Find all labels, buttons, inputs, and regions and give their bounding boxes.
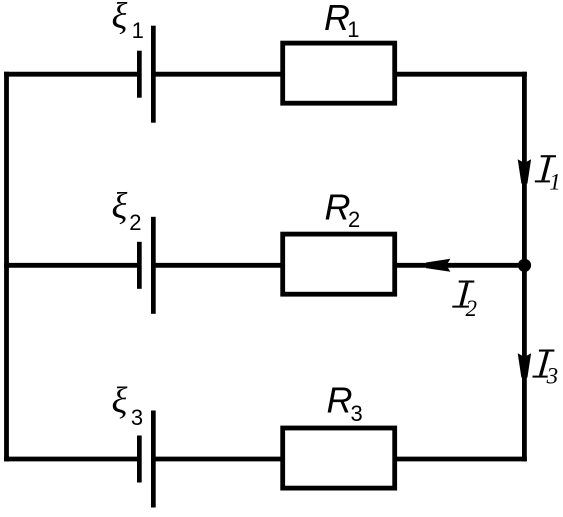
svg-text:3: 3 — [351, 401, 363, 426]
svg-text:1: 1 — [132, 18, 144, 43]
svg-text:R: R — [327, 380, 353, 421]
wire left vertical bus — [4, 72, 9, 462]
svg-text:3: 3 — [546, 364, 559, 389]
wire middle row: resistor R2 to right bus node — [395, 263, 527, 268]
battery E3 long plate — [151, 411, 156, 508]
wire right vertical bus — [522, 72, 527, 462]
wire middle row: left bus to battery 2 — [4, 263, 139, 268]
resistor R1 body — [283, 43, 395, 103]
current arrow I1 head (down) — [518, 159, 531, 183]
svg-text:ξ: ξ — [112, 0, 128, 37]
battery E2 long plate — [151, 217, 156, 314]
label I3 — [533, 350, 555, 378]
label I1 — [535, 155, 556, 182]
wire middle row: battery 2 to resistor R2 — [153, 263, 283, 268]
battery E2 short plate — [137, 242, 142, 289]
svg-text:R: R — [325, 186, 351, 227]
current arrow I3 head (down) — [518, 353, 531, 377]
battery E1 long plate — [151, 26, 156, 123]
wire top row: resistor R1 to right bus — [395, 72, 527, 77]
svg-text:2: 2 — [348, 207, 360, 232]
svg-text:2: 2 — [129, 210, 141, 235]
wire top row: battery 1 to resistor R1 — [153, 72, 283, 77]
wire bottom row: left bus to battery 3 — [4, 457, 139, 462]
current arrow I2 head (left) — [426, 259, 450, 272]
resistor R2 body — [283, 234, 395, 294]
wire top row: left bus to battery 1 — [4, 72, 139, 77]
battery E3 short plate — [137, 436, 142, 483]
wire bottom row: battery 3 to resistor R3 — [153, 457, 283, 462]
svg-text:ξ: ξ — [112, 380, 128, 421]
svg-text:1: 1 — [549, 170, 561, 195]
battery E1 short plate — [137, 51, 142, 98]
svg-text:R: R — [324, 0, 350, 38]
label I2 — [452, 281, 474, 308]
resistor R3 body — [283, 428, 395, 488]
svg-text:2: 2 — [466, 296, 478, 321]
svg-text:3: 3 — [131, 405, 143, 430]
svg-text:1: 1 — [347, 17, 359, 42]
node junction dot — [518, 259, 531, 272]
wire bottom row: resistor R3 to right bus — [395, 457, 527, 462]
svg-text:ξ: ξ — [112, 186, 128, 227]
